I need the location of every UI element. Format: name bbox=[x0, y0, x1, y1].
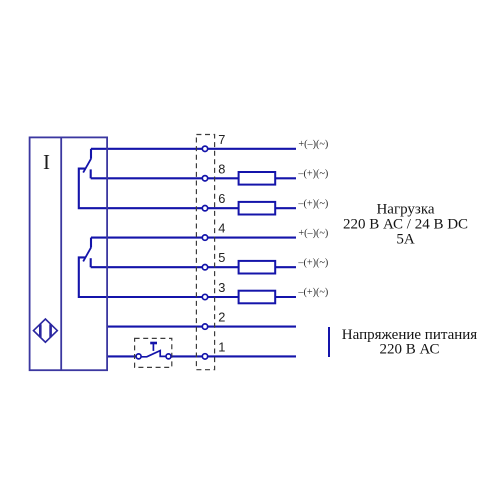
switch S1 contact riser (throw to wire 7) bbox=[90, 149, 92, 159]
svg-text:–(+)(~): –(+)(~) bbox=[297, 287, 328, 298]
terminal 8 bbox=[202, 176, 207, 181]
wire 3 (common of switch S2 to terminal 3) bbox=[79, 257, 296, 297]
wire 7 (to terminal 7) bbox=[91, 148, 296, 150]
svg-text:4: 4 bbox=[218, 221, 225, 236]
svg-text:–(+)(~): –(+)(~) bbox=[297, 169, 328, 180]
push-button actuator T-bar bbox=[150, 342, 157, 345]
sensor block outline bbox=[30, 137, 108, 370]
switch S1 lever bbox=[83, 159, 91, 173]
resistor on line 6 bbox=[239, 202, 276, 215]
terminal 2 bbox=[202, 324, 207, 329]
switch S2 lever bbox=[83, 248, 91, 262]
resistor on line 5 bbox=[239, 261, 276, 274]
svg-text:2: 2 bbox=[218, 310, 225, 325]
svg-text:7: 7 bbox=[218, 132, 225, 147]
terminal 7 bbox=[202, 146, 207, 151]
svg-text:8: 8 bbox=[218, 161, 225, 176]
push-button dashed box bbox=[135, 338, 172, 367]
svg-text:+(–)(~): +(–)(~) bbox=[298, 228, 328, 239]
terminal 5 bbox=[202, 265, 207, 270]
resistor on line 8 bbox=[239, 172, 276, 185]
svg-text:+(–)(~): +(–)(~) bbox=[298, 139, 328, 150]
svg-text:1: 1 bbox=[218, 339, 225, 354]
wire 2 (to terminal 2) bbox=[107, 326, 296, 328]
wire 6 (common of switch S1 to terminal 6) bbox=[79, 169, 296, 209]
svg-text:6: 6 bbox=[218, 191, 225, 206]
svg-text:Нагрузка: Нагрузка bbox=[376, 202, 434, 218]
switch S1 riser (throw to wire 8) bbox=[90, 169, 92, 178]
push-button left contact bbox=[136, 354, 141, 359]
push-button lever bbox=[142, 351, 167, 357]
svg-text:–(+)(~): –(+)(~) bbox=[297, 257, 328, 268]
terminal 1 bbox=[202, 354, 207, 359]
terminal 3 bbox=[202, 294, 207, 299]
svg-text:5А: 5А bbox=[396, 231, 415, 247]
resistor on line 3 bbox=[239, 291, 276, 304]
terminal strip dashed box bbox=[196, 135, 214, 370]
sensor block divider line bbox=[60, 137, 62, 370]
svg-text:5: 5 bbox=[218, 250, 225, 265]
svg-text:I: I bbox=[43, 150, 50, 174]
switch S2 riser (throw to wire 5) bbox=[90, 258, 92, 267]
push-button right contact bbox=[166, 354, 171, 359]
bracket bar for supply pair bbox=[328, 327, 330, 357]
inductive sensor diamond symbol bbox=[34, 319, 58, 342]
switch S2 contact riser (throw to wire 4) bbox=[90, 238, 92, 248]
svg-text:Напряжение питания: Напряжение питания bbox=[342, 327, 478, 343]
svg-text:220 В АС: 220 В АС bbox=[379, 342, 439, 358]
wire 5 (to terminal 5) bbox=[91, 266, 296, 268]
wire 8 (to terminal 8) bbox=[91, 177, 296, 179]
terminal 6 bbox=[202, 206, 207, 211]
wire 1 right segment (push-button to terminal 1) bbox=[171, 355, 296, 357]
svg-text:–(+)(~): –(+)(~) bbox=[297, 198, 328, 209]
wire 1 left segment (block to push-button) bbox=[107, 355, 136, 357]
terminal 4 bbox=[202, 235, 207, 240]
svg-text:3: 3 bbox=[218, 280, 225, 295]
wire 4 (to terminal 4) bbox=[91, 237, 296, 239]
push-button actuator stem bbox=[152, 343, 154, 351]
svg-text:220 В АС / 24 В DC: 220 В АС / 24 В DC bbox=[343, 217, 468, 233]
